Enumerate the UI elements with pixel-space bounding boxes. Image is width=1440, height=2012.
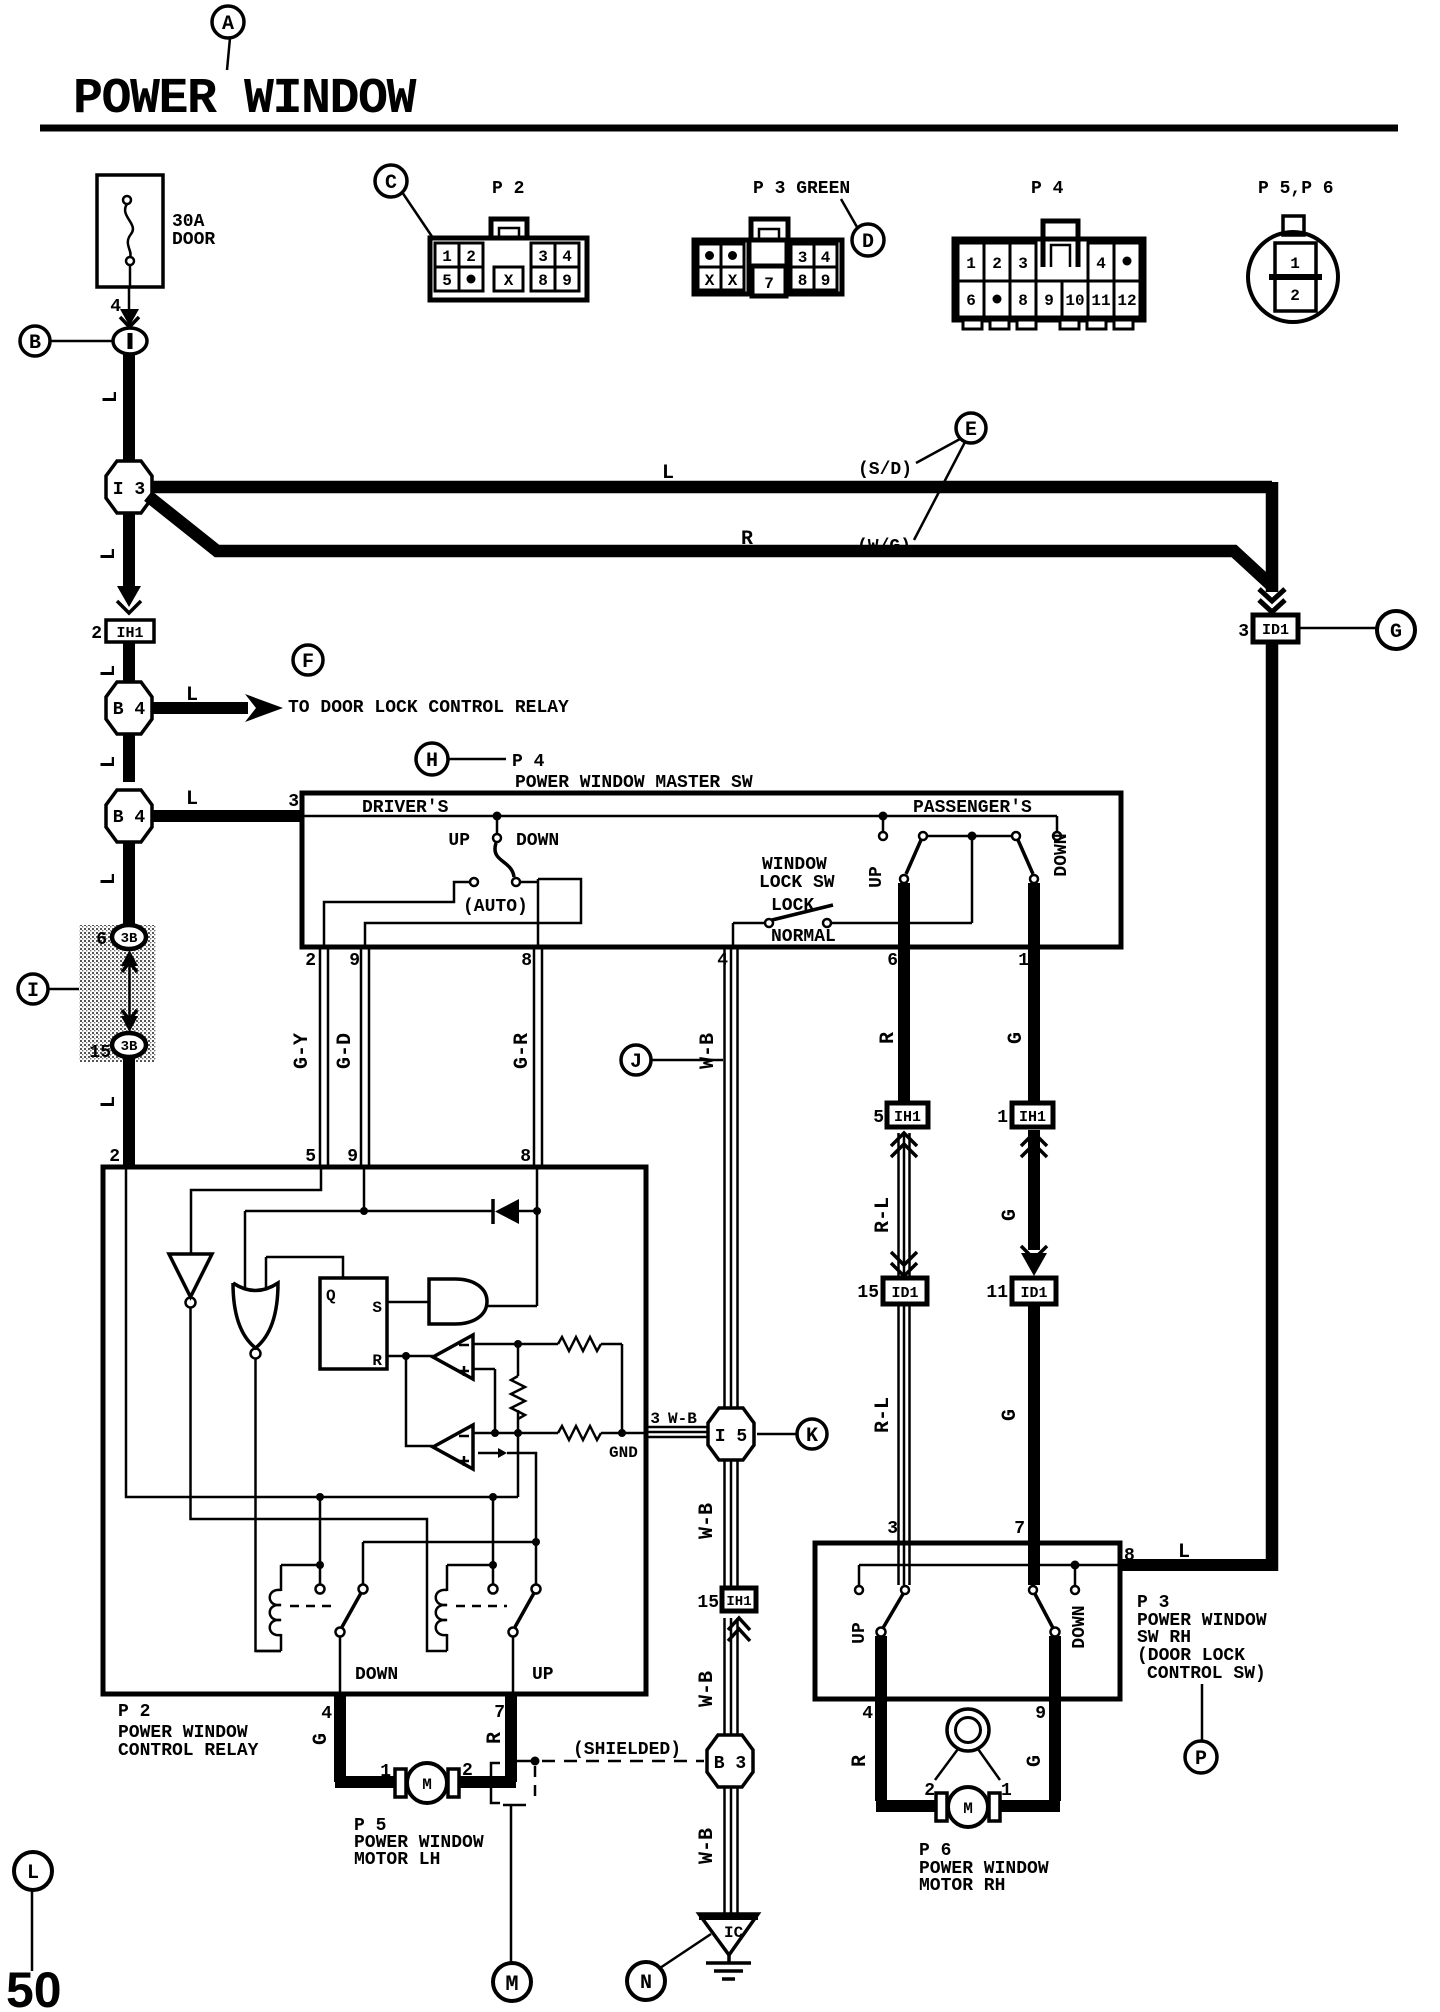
svg-text:2: 2: [305, 951, 316, 971]
svg-text:W-B: W-B: [696, 1828, 719, 1864]
svg-text:M: M: [422, 1776, 432, 1794]
svg-text:5: 5: [442, 272, 452, 290]
svg-text:POWER WINDOW: POWER WINDOW: [73, 71, 417, 128]
svg-text:G: G: [1024, 1755, 1047, 1767]
svg-text:I 3: I 3: [113, 480, 145, 500]
svg-text:2: 2: [109, 1147, 120, 1167]
svg-text:(DOOR LOCK: (DOOR LOCK: [1137, 1646, 1245, 1666]
svg-text:2: 2: [466, 248, 476, 266]
svg-text:POWER WINDOW: POWER WINDOW: [118, 1723, 248, 1743]
svg-text:L: L: [98, 1096, 121, 1108]
svg-text:I 5: I 5: [715, 1427, 747, 1447]
svg-text:CONTROL RELAY: CONTROL RELAY: [118, 1741, 259, 1761]
svg-text:P 4: P 4: [1031, 179, 1064, 199]
svg-text:1: 1: [442, 248, 452, 266]
svg-text:12: 12: [1117, 292, 1136, 310]
svg-text:L: L: [98, 665, 121, 677]
svg-text:K: K: [806, 1425, 818, 1448]
svg-text:A: A: [222, 13, 234, 36]
svg-text:R: R: [849, 1755, 872, 1767]
svg-text:10: 10: [1065, 292, 1084, 310]
svg-text:L: L: [1178, 1541, 1190, 1564]
svg-text:2: 2: [992, 255, 1002, 273]
svg-text:1: 1: [966, 255, 976, 273]
svg-text:POWER WINDOW MASTER SW: POWER WINDOW MASTER SW: [515, 773, 753, 793]
svg-text:3: 3: [650, 1410, 660, 1428]
svg-text:1: 1: [997, 1108, 1008, 1128]
svg-text:9: 9: [347, 1147, 358, 1167]
svg-text:NORMAL: NORMAL: [771, 927, 836, 947]
svg-text:B 3: B 3: [714, 1754, 746, 1774]
svg-text:30A: 30A: [172, 212, 205, 232]
svg-text:P 3: P 3: [1137, 1593, 1169, 1613]
svg-text:ID1: ID1: [1020, 1285, 1047, 1302]
svg-text:D: D: [862, 231, 874, 254]
svg-text:9: 9: [821, 272, 831, 290]
svg-text:ID1: ID1: [1262, 622, 1289, 639]
svg-text:G: G: [1390, 621, 1402, 644]
svg-text:P 6: P 6: [919, 1841, 951, 1861]
svg-text:X: X: [705, 272, 715, 290]
svg-text:7: 7: [1014, 1519, 1025, 1539]
svg-text:N: N: [640, 1972, 652, 1995]
svg-text:8: 8: [520, 1147, 531, 1167]
svg-text:4: 4: [717, 951, 728, 971]
svg-text:G: G: [999, 1409, 1022, 1421]
svg-text:7: 7: [764, 275, 774, 293]
svg-text:3: 3: [1018, 255, 1028, 273]
svg-text:(AUTO): (AUTO): [463, 897, 528, 917]
svg-text:J: J: [630, 1051, 642, 1074]
svg-text:1: 1: [1001, 1781, 1012, 1801]
svg-text:R: R: [741, 528, 753, 551]
svg-text:R-L: R-L: [872, 1197, 895, 1233]
svg-text:P 3 GREEN: P 3 GREEN: [753, 179, 850, 199]
svg-text:3B: 3B: [121, 931, 138, 947]
svg-text:M: M: [963, 1800, 973, 1818]
svg-text:CONTROL SW): CONTROL SW): [1147, 1664, 1266, 1684]
svg-text:GND: GND: [609, 1444, 638, 1462]
svg-text:P: P: [1195, 1748, 1207, 1771]
svg-text:4: 4: [562, 248, 572, 266]
svg-text:L: L: [27, 1862, 39, 1885]
svg-text:UP: UP: [532, 1665, 554, 1685]
svg-text:L: L: [186, 684, 198, 707]
svg-text:MOTOR LH: MOTOR LH: [354, 1850, 440, 1870]
svg-text:3: 3: [887, 1519, 898, 1539]
svg-text:DOWN: DOWN: [1070, 1605, 1090, 1648]
svg-text:2: 2: [91, 624, 102, 644]
svg-text:6: 6: [887, 951, 898, 971]
svg-text:P 5,P 6: P 5,P 6: [1258, 179, 1334, 199]
svg-text:LOCK SW: LOCK SW: [759, 873, 835, 893]
svg-text:9: 9: [1035, 1704, 1046, 1724]
svg-text:8: 8: [521, 951, 532, 971]
svg-text:3: 3: [538, 248, 548, 266]
svg-text:R-L: R-L: [872, 1397, 895, 1433]
svg-text:L: L: [100, 391, 123, 403]
svg-text:W-B: W-B: [696, 1671, 719, 1707]
svg-text:B 4: B 4: [113, 808, 146, 828]
svg-text:DOWN: DOWN: [1052, 833, 1072, 876]
svg-text:F: F: [302, 651, 314, 674]
svg-text:(W/G): (W/G): [857, 537, 911, 557]
svg-text:1: 1: [380, 1762, 391, 1782]
svg-text:M: M: [505, 1972, 518, 1997]
svg-text:3B: 3B: [121, 1039, 138, 1055]
svg-text:C: C: [385, 172, 397, 195]
svg-text:G-Y: G-Y: [291, 1033, 314, 1069]
svg-text:8: 8: [1018, 292, 1028, 310]
svg-text:MOTOR RH: MOTOR RH: [919, 1876, 1005, 1896]
svg-text:IH1: IH1: [1019, 1109, 1046, 1126]
svg-text:6: 6: [96, 930, 107, 950]
svg-text:4: 4: [1096, 255, 1106, 273]
svg-text:5: 5: [305, 1147, 316, 1167]
svg-text:4: 4: [862, 1704, 873, 1724]
svg-text:UP: UP: [850, 1622, 870, 1644]
svg-text:P 4: P 4: [512, 752, 545, 772]
svg-text:DOWN: DOWN: [516, 831, 559, 851]
svg-text:1: 1: [1018, 951, 1029, 971]
svg-text:UP: UP: [867, 866, 887, 888]
svg-text:X: X: [504, 272, 514, 290]
svg-text:P 2: P 2: [492, 179, 524, 199]
svg-text:B: B: [29, 332, 41, 355]
svg-text:L: L: [98, 873, 121, 885]
svg-text:TO DOOR LOCK CONTROL RELAY: TO DOOR LOCK CONTROL RELAY: [288, 698, 569, 718]
svg-text:11: 11: [1091, 292, 1110, 310]
svg-text:G: G: [1005, 1032, 1028, 1044]
svg-text:B 4: B 4: [113, 700, 146, 720]
svg-text:50: 50: [6, 1962, 62, 2012]
svg-text:W-B: W-B: [696, 1503, 719, 1539]
svg-text:6: 6: [966, 292, 976, 310]
svg-text:R: R: [372, 1352, 382, 1370]
svg-text:W-B: W-B: [668, 1410, 697, 1428]
svg-text:X: X: [728, 272, 738, 290]
svg-text:S: S: [372, 1299, 382, 1317]
svg-text:Q: Q: [326, 1287, 336, 1305]
svg-text:11: 11: [986, 1283, 1008, 1303]
svg-text:DOOR: DOOR: [172, 230, 215, 250]
svg-text:4: 4: [321, 1704, 332, 1724]
svg-text:ID1: ID1: [891, 1285, 918, 1302]
svg-text:2: 2: [924, 1781, 935, 1801]
svg-text:R: R: [877, 1032, 900, 1044]
svg-text:L: L: [98, 548, 121, 560]
svg-text:3: 3: [288, 792, 299, 812]
svg-text:LOCK: LOCK: [771, 896, 814, 916]
svg-text:IH1: IH1: [726, 1594, 751, 1610]
svg-text:G-R: G-R: [511, 1033, 534, 1069]
svg-text:5: 5: [873, 1108, 884, 1128]
svg-text:IH1: IH1: [116, 625, 143, 642]
svg-text:(S/D): (S/D): [858, 460, 912, 480]
svg-text:1: 1: [1290, 255, 1300, 273]
svg-text:L: L: [186, 788, 198, 811]
svg-text:15: 15: [697, 1593, 719, 1613]
svg-text:UP: UP: [448, 831, 470, 851]
svg-text:SW RH: SW RH: [1137, 1628, 1191, 1648]
svg-text:H: H: [426, 750, 438, 773]
svg-text:R: R: [484, 1732, 507, 1744]
svg-text:2: 2: [1290, 287, 1300, 305]
svg-text:15: 15: [857, 1283, 879, 1303]
svg-text:8: 8: [798, 272, 808, 290]
svg-text:9: 9: [349, 951, 360, 971]
svg-text:IC: IC: [724, 1924, 744, 1942]
svg-text:3: 3: [1238, 622, 1249, 642]
svg-text:8: 8: [538, 272, 548, 290]
svg-text:G: G: [310, 1733, 333, 1745]
svg-text:P 2: P 2: [118, 1702, 150, 1722]
svg-text:8: 8: [1124, 1546, 1135, 1566]
svg-text:L: L: [98, 756, 121, 768]
svg-text:2: 2: [462, 1761, 473, 1781]
svg-text:IH1: IH1: [894, 1109, 921, 1126]
svg-text:G: G: [999, 1209, 1022, 1221]
svg-text:15: 15: [89, 1043, 111, 1063]
svg-text:4: 4: [110, 297, 121, 317]
svg-text:4: 4: [821, 249, 831, 267]
svg-text:G-D: G-D: [334, 1033, 357, 1069]
svg-text:DOWN: DOWN: [355, 1665, 398, 1685]
svg-text:E: E: [965, 419, 977, 442]
svg-text:L: L: [662, 462, 674, 485]
svg-text:9: 9: [562, 272, 572, 290]
svg-text:7: 7: [494, 1703, 505, 1723]
svg-text:9: 9: [1044, 292, 1054, 310]
svg-text:(SHIELDED): (SHIELDED): [573, 1740, 681, 1760]
svg-text:W-B: W-B: [697, 1033, 720, 1069]
svg-text:I: I: [27, 980, 39, 1003]
svg-text:WINDOW: WINDOW: [762, 855, 827, 875]
svg-text:3: 3: [798, 249, 808, 267]
